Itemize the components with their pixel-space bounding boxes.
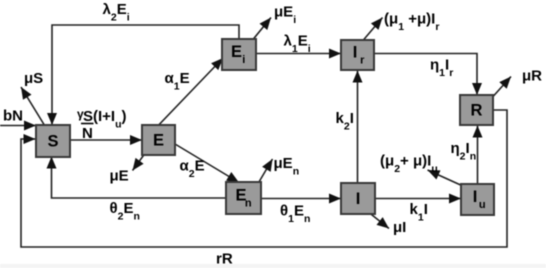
svg-text:S: S [47,133,58,151]
svg-text:(I+Iu): (I+Iu) [93,108,127,130]
svg-text:μI: μI [393,219,406,236]
svg-text:η2In: η2In [451,140,477,162]
svg-text:I: I [473,188,478,206]
svg-text:u: u [479,199,486,211]
svg-text:S: S [83,108,93,125]
svg-text:I: I [356,190,361,208]
svg-text:μS: μS [24,70,43,87]
svg-text:k2I: k2I [336,110,354,132]
svg-text:(μ1 +μ)Ir: (μ1 +μ)Ir [384,11,439,33]
svg-text:μE: μE [110,168,129,185]
svg-text:n: n [245,198,252,210]
svg-text:θ1En: θ1En [280,203,310,225]
svg-text:k1I: k1I [410,201,428,223]
svg-text:θ2En: θ2En [110,200,140,222]
svg-text:N: N [82,125,93,142]
svg-text:bN: bN [3,108,23,125]
svg-text:I: I [353,43,358,61]
svg-text:λ1Ei: λ1Ei [284,33,311,55]
svg-text:E: E [231,43,242,61]
svg-text:R: R [471,102,483,120]
svg-text:η1Ir: η1Ir [430,57,453,79]
svg-text:μR: μR [522,68,542,85]
svg-text:r: r [360,55,365,67]
svg-text:E: E [153,132,164,150]
svg-text:λ2Ei: λ2Ei [103,1,130,23]
svg-text:i: i [242,54,245,66]
svg-text:α2E: α2E [180,158,205,180]
svg-text:rR: rR [216,251,233,268]
svg-text:μEi: μEi [274,4,296,26]
svg-text:α1E: α1E [165,70,190,92]
svg-text:μEn: μEn [274,155,300,177]
